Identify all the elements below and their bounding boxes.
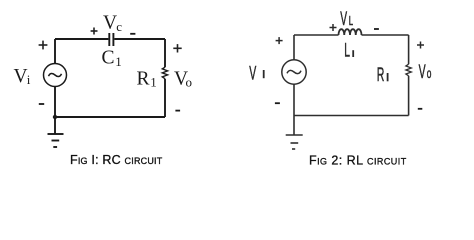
svg-text:R: R (377, 65, 385, 86)
svg-text:o: o (427, 67, 432, 81)
svg-text:o: o (186, 75, 193, 90)
svg-text:V: V (14, 66, 28, 87)
svg-text:V: V (419, 62, 426, 83)
svg-text:R: R (137, 69, 150, 90)
svg-text:Fig 2: RL circuit: Fig 2: RL circuit (309, 154, 407, 168)
svg-text:V: V (340, 9, 347, 30)
svg-text:L: L (349, 14, 353, 29)
svg-text:i: i (27, 72, 31, 87)
svg-text:Fig I: RC circuit: Fig I: RC circuit (70, 153, 163, 167)
svg-text:L: L (344, 41, 350, 62)
svg-text:V: V (103, 13, 117, 34)
svg-text:1: 1 (115, 54, 122, 69)
svg-text:c: c (116, 19, 122, 34)
svg-text:C: C (102, 48, 115, 69)
svg-text:1: 1 (150, 75, 157, 90)
svg-text:V: V (249, 63, 256, 84)
